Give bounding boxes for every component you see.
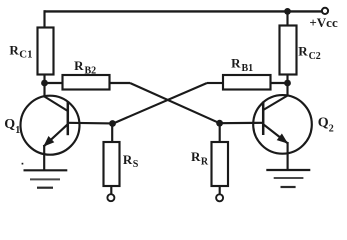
svg-text:+Vcc: +Vcc <box>309 15 338 30</box>
